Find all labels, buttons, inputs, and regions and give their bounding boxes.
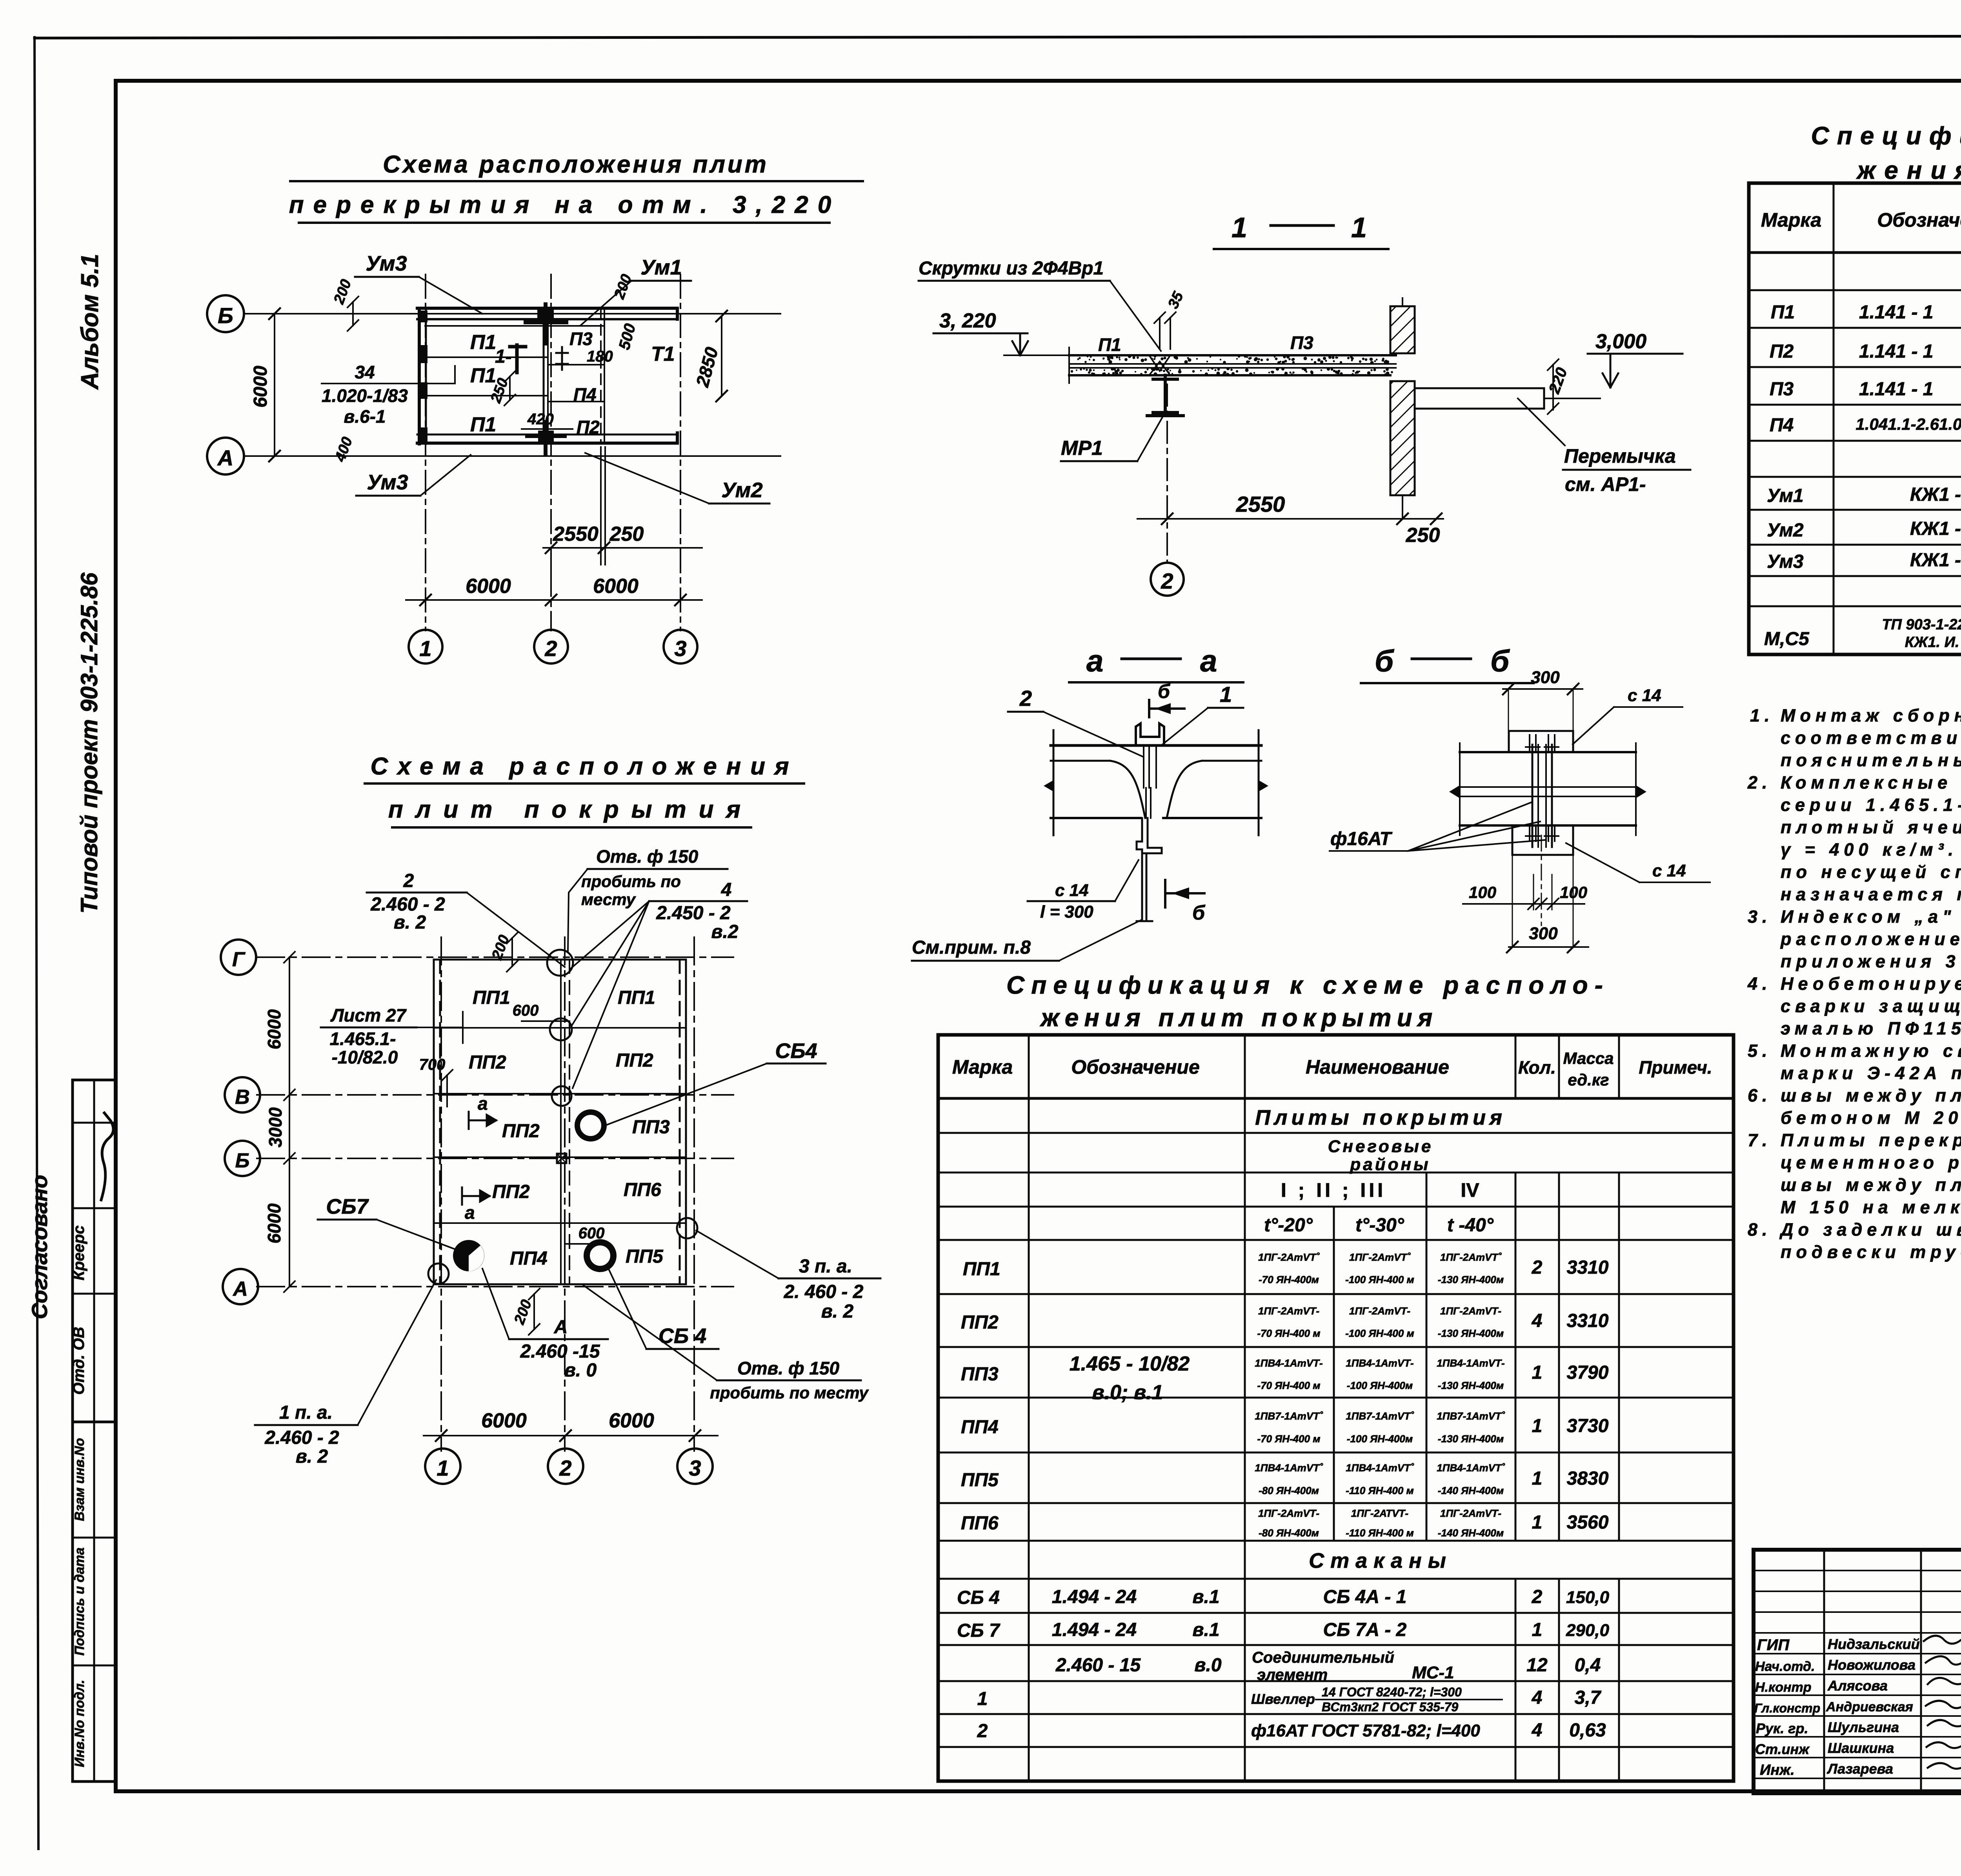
- level arrow 3,220: [1012, 333, 1028, 355]
- leaders ф16АТ: [1408, 802, 1545, 851]
- svg-text:элемент: элемент: [1257, 1666, 1328, 1683]
- svg-text:4.: 4.: [1747, 974, 1772, 994]
- svg-text:назначается при привязке.: назначается при привязке.: [1781, 884, 1961, 904]
- svg-text:ГИП: ГИП: [1757, 1636, 1790, 1654]
- svg-text:6000: 6000: [593, 575, 639, 598]
- svg-text:СБ 7А - 2: СБ 7А - 2: [1323, 1620, 1407, 1640]
- svg-text:ед.кг: ед.кг: [1568, 1071, 1609, 1089]
- svg-text:4: 4: [1532, 1720, 1543, 1741]
- svg-text:-140 ЯН-400м: -140 ЯН-400м: [1438, 1527, 1504, 1539]
- svg-text:а: а: [465, 1202, 475, 1223]
- right dashed wall strip: [679, 960, 681, 1284]
- column circle 1: [409, 630, 442, 664]
- svg-text:200: 200: [331, 277, 355, 307]
- svg-text:6000: 6000: [609, 1409, 654, 1432]
- svg-text:2: 2: [559, 1456, 571, 1480]
- rib curves: [1110, 761, 1145, 818]
- section mark б bottom: [1165, 880, 1204, 907]
- leader Ум1: [580, 281, 631, 325]
- svg-text:Спецификация к схеме располо-: Спецификация к схеме располо-: [1811, 122, 1961, 150]
- svg-text:6.: 6.: [1748, 1085, 1772, 1105]
- svg-text:3730: 3730: [1567, 1416, 1609, 1436]
- svg-text:6000: 6000: [481, 1409, 527, 1432]
- svg-text:6000: 6000: [466, 575, 511, 598]
- notes block: [1747, 705, 1961, 1262]
- svg-text:а: а: [478, 1093, 488, 1114]
- svg-text:КЖ1 - 18: КЖ1 - 18: [1910, 484, 1961, 505]
- svg-text:600: 600: [578, 1225, 605, 1242]
- slab hatch dots: [1071, 355, 1393, 376]
- svg-text:МР1: МР1: [1061, 437, 1103, 460]
- svg-text:700: 700: [419, 1056, 446, 1073]
- roof plan outline: [434, 960, 686, 1284]
- svg-text:Ум1: Ум1: [1767, 485, 1804, 506]
- svg-text:-130 ЯН-400м: -130 ЯН-400м: [1438, 1380, 1504, 1391]
- section 1-1 dim line 2550/250: [1137, 518, 1443, 520]
- svg-text:1.041.1-2.61.0.00.0-02: 1.041.1-2.61.0.00.0-02: [1855, 415, 1961, 433]
- plan building left wall: [418, 308, 421, 444]
- svg-text:месту: месту: [581, 890, 637, 909]
- I-beam under joint MP1: [1147, 375, 1183, 416]
- svg-text:сварки защищаются 2х слойны: сварки защищаются 2х слойным покрытием: [1781, 996, 1961, 1016]
- svg-text:П1: П1: [470, 413, 496, 436]
- svg-text:200: 200: [611, 272, 635, 302]
- svg-text:Альбом 5.1: Альбом 5.1: [76, 254, 104, 390]
- svg-text:Алясова: Алясова: [1827, 1678, 1888, 1694]
- svg-text:8.: 8.: [1748, 1220, 1772, 1240]
- svg-text:2550: 2550: [1236, 492, 1285, 516]
- svg-text:П3: П3: [569, 329, 593, 349]
- svg-text:пробить по: пробить по: [581, 872, 681, 891]
- svg-text:перекрытия на отм. 3,220: перекрытия на отм. 3,220: [289, 191, 841, 218]
- svg-text:-110 ЯН-400 м: -110 ЯН-400 м: [1346, 1485, 1414, 1496]
- hole ПП4 dark: [453, 1240, 484, 1271]
- svg-text:Ум3: Ум3: [367, 471, 408, 494]
- leader СБ4: [605, 1063, 767, 1125]
- svg-text:-80 ЯН-400м: -80 ЯН-400м: [1259, 1485, 1319, 1496]
- svg-text:1: 1: [1220, 682, 1232, 707]
- svg-text:3: 3: [674, 636, 686, 661]
- axis line А2: [257, 1286, 733, 1287]
- wall blobs left: [418, 310, 554, 442]
- level line at slab top: [1004, 354, 1069, 356]
- svg-text:1.494 - 24: 1.494 - 24: [1052, 1620, 1137, 1640]
- svg-text:жения плит покрытия: жения плит покрытия: [1040, 1003, 1438, 1032]
- svg-text:марки Э-42А по ГОСТ 9467-7: марки Э-42А по ГОСТ 9467-75.: [1781, 1063, 1961, 1083]
- svg-text:Марка: Марка: [1761, 209, 1821, 231]
- leader target circle top: [547, 950, 573, 976]
- svg-text:П2: П2: [577, 417, 600, 437]
- svg-text:пояснительных записок применя: пояснительных записок применяемых серий.: [1781, 750, 1961, 770]
- svg-text:1ПГ-2АтVТ˚: 1ПГ-2АтVТ˚: [1258, 1251, 1320, 1263]
- svg-text:1ПВ7-1АтVТ˚: 1ПВ7-1АтVТ˚: [1346, 1410, 1414, 1422]
- svg-text:t°-30°: t°-30°: [1355, 1215, 1404, 1236]
- svg-text:Соединительный: Соединительный: [1252, 1649, 1394, 1666]
- svg-text:3310: 3310: [1567, 1257, 1609, 1278]
- column circle 3 plan2: [677, 1449, 713, 1484]
- svg-text:Согласовано: Согласовано: [27, 1175, 52, 1319]
- leader см.прим: [1059, 920, 1142, 961]
- svg-text:ПП3: ПП3: [632, 1117, 670, 1138]
- svg-text:А: А: [554, 1317, 568, 1338]
- bolt rods through slab: [1532, 745, 1534, 847]
- svg-text:34: 34: [355, 362, 375, 382]
- svg-text:в. 2: в. 2: [821, 1301, 854, 1322]
- axis circle А2: [223, 1269, 258, 1304]
- plan building top wall: [417, 307, 677, 310]
- svg-text:1.020-1/83: 1.020-1/83: [322, 385, 408, 406]
- svg-text:1ПВ4-1АтVТ-: 1ПВ4-1АтVТ-: [1346, 1357, 1413, 1369]
- svg-text:1 п. а.: 1 п. а.: [279, 1402, 333, 1423]
- column axis 2: [550, 274, 552, 573]
- slab joint vertical at axis 2: [543, 308, 545, 443]
- svg-text:2.: 2.: [1747, 773, 1772, 793]
- svg-text:ТП 903-1-225.86: ТП 903-1-225.86: [1882, 616, 1961, 633]
- leader target circle mid: [550, 1018, 572, 1040]
- leader отв ф150 top: [568, 869, 588, 951]
- svg-text:КЖ1 - 18: КЖ1 - 18: [1910, 518, 1961, 539]
- right edge circle 3pa: [677, 1218, 697, 1238]
- svg-text:2.460 - 15: 2.460 - 15: [1055, 1655, 1141, 1676]
- svg-text:3.: 3.: [1748, 907, 1772, 927]
- slab band b-b: [1450, 743, 1646, 925]
- svg-text:1ПГ-2АтVТ-: 1ПГ-2АтVТ-: [1258, 1305, 1319, 1317]
- column axis to circle 2: [1166, 384, 1168, 561]
- svg-text:1ПВ4-1АтVТ-: 1ПВ4-1АтVТ-: [1437, 1357, 1504, 1369]
- svg-text:В: В: [235, 1086, 250, 1109]
- svg-text:1.141 - 1: 1.141 - 1: [1859, 379, 1933, 400]
- svg-text:2: 2: [1161, 569, 1173, 593]
- svg-text:1: 1: [1351, 212, 1367, 244]
- svg-text:-10/82.0: -10/82.0: [332, 1047, 398, 1067]
- svg-text:соответствии с указаниями С: соответствии с указаниями СНиПШ-16-73 и: [1781, 728, 1961, 748]
- column circle 3: [664, 630, 697, 664]
- svg-text:Лазарева: Лазарева: [1826, 1761, 1893, 1777]
- axis line Б: [245, 313, 780, 314]
- svg-text:ф16АТ ГОСТ 5781-82; l=400: ф16АТ ГОСТ 5781-82; l=400: [1251, 1721, 1480, 1740]
- leader МР1: [1137, 416, 1163, 461]
- leader 3 па: [696, 1231, 779, 1278]
- svg-text:1ПГ-2АтVТ-: 1ПГ-2АтVТ-: [1440, 1507, 1501, 1519]
- svg-text:1.494 - 24: 1.494 - 24: [1052, 1587, 1137, 1607]
- svg-text:расположение закладных детал: расположение закладных деталей согласно: [1780, 929, 1961, 949]
- svg-text:-80 ЯН-400м: -80 ЯН-400м: [1259, 1527, 1319, 1539]
- svg-text:ПП3: ПП3: [961, 1364, 999, 1385]
- sheet outer border left: [35, 37, 38, 1849]
- sheet outer border top: [35, 36, 1961, 38]
- leader СБ4 lower: [607, 1266, 646, 1349]
- svg-text:1: 1: [419, 636, 431, 661]
- svg-text:б: б: [1490, 644, 1510, 678]
- svg-text:5.: 5.: [1748, 1041, 1772, 1061]
- svg-text:-70 ЯН-400 м: -70 ЯН-400 м: [1257, 1433, 1320, 1445]
- svg-text:6000: 6000: [264, 1203, 284, 1243]
- svg-text:1: 1: [1532, 1416, 1543, 1436]
- svg-text:l = 300: l = 300: [1040, 902, 1093, 922]
- svg-text:ПП2: ПП2: [469, 1052, 506, 1073]
- svg-text:Кол.: Кол.: [1518, 1057, 1556, 1078]
- svg-text:в.6-1: в.6-1: [344, 406, 386, 427]
- svg-text:1: 1: [1532, 1468, 1543, 1489]
- svg-text:П3: П3: [1290, 333, 1313, 353]
- svg-text:ПП2: ПП2: [502, 1121, 540, 1142]
- hanger rod: [1137, 853, 1152, 921]
- anchor cross top axis2: [526, 304, 566, 344]
- svg-text:б: б: [1158, 680, 1171, 702]
- section mark б top: [1149, 700, 1184, 717]
- svg-text:в.1: в.1: [1192, 1620, 1219, 1640]
- axis circle А: [207, 438, 244, 474]
- svg-text:290,0: 290,0: [1566, 1621, 1610, 1640]
- svg-text:П4: П4: [1770, 415, 1794, 436]
- svg-text:420: 420: [527, 411, 554, 428]
- svg-text:Ум3: Ум3: [366, 252, 407, 275]
- svg-text:1ПВ4-1АтVТ˚: 1ПВ4-1АтVТ˚: [1255, 1462, 1323, 1474]
- svg-text:1.465.1-: 1.465.1-: [330, 1029, 396, 1049]
- svg-text:1: 1: [437, 1456, 449, 1480]
- slab joint wedge: [1149, 355, 1170, 375]
- svg-text:плит покрытия: плит покрытия: [388, 796, 753, 823]
- svg-text:серии 1.465.1-10/82. В кач: серии 1.465.1-10/82. В качестве утеплите…: [1781, 795, 1961, 815]
- svg-text:12: 12: [1526, 1655, 1548, 1676]
- leader А: [482, 1269, 509, 1339]
- edge ticks: [1053, 730, 1055, 835]
- svg-text:швы между плитами покрытия: швы между плитами покрытия заделать: [1781, 1085, 1961, 1105]
- svg-text:150,0: 150,0: [1566, 1588, 1610, 1607]
- bottom dim line plan2: [424, 1435, 718, 1436]
- svg-text:приложения 3 ГОСТ 22 701.0 -: приложения 3 ГОСТ 22 701.0 - 77.: [1781, 951, 1961, 971]
- svg-text:1ПГ-2АтVТ˚: 1ПГ-2АтVТ˚: [1440, 1251, 1502, 1263]
- svg-text:2: 2: [1532, 1587, 1543, 1607]
- svg-text:Нач.отд.: Нач.отд.: [1755, 1659, 1815, 1674]
- svg-text:подвески трубопроводов по: подвески трубопроводов по сеч. а - а.: [1781, 1242, 1961, 1262]
- square marker at axis2-Б: [557, 1154, 566, 1163]
- svg-text:1.465 - 10/82: 1.465 - 10/82: [1070, 1352, 1190, 1375]
- wall bottom hatch continues: [1402, 495, 1403, 519]
- leader СБ7: [377, 1220, 460, 1251]
- svg-text:а: а: [1200, 644, 1217, 678]
- svg-text:t°-20°: t°-20°: [1264, 1215, 1313, 1236]
- leaders 4: [571, 901, 649, 1088]
- axis circle Б: [207, 295, 244, 332]
- svg-text:4: 4: [721, 880, 732, 900]
- svg-text:1ПГ-2АтVТ˚: 1ПГ-2АтVТ˚: [1349, 1251, 1411, 1263]
- svg-text:см. АР1-: см. АР1-: [1565, 473, 1646, 495]
- svg-text:Т1: Т1: [651, 343, 675, 365]
- dim line bottom 6000x2: [406, 599, 702, 601]
- svg-text:Швеллер: Швеллер: [1251, 1691, 1315, 1707]
- svg-text:П2: П2: [1770, 341, 1794, 362]
- signatures scribbles: [1924, 1636, 1961, 1769]
- hanger hook below slab: [1137, 818, 1162, 853]
- leader Скрутки: [1110, 281, 1161, 351]
- column axis 3: [680, 274, 681, 631]
- svg-text:Ст.инж: Ст.инж: [1755, 1741, 1810, 1757]
- svg-text:Отд. ОВ: Отд. ОВ: [70, 1327, 87, 1394]
- svg-text:ПП5: ПП5: [961, 1470, 999, 1491]
- svg-text:-70 ЯН-400м: -70 ЯН-400м: [1259, 1274, 1319, 1285]
- svg-text:500: 500: [616, 322, 639, 352]
- svg-text:180: 180: [587, 348, 613, 365]
- svg-text:Лист 27: Лист 27: [330, 1005, 407, 1025]
- axis line В: [257, 1094, 733, 1096]
- svg-text:14 ГОСТ 8240-72; l=300: 14 ГОСТ 8240-72; l=300: [1322, 1685, 1462, 1699]
- svg-text:Инж.: Инж.: [1760, 1762, 1795, 1778]
- svg-text:0,63: 0,63: [1569, 1720, 1606, 1741]
- svg-text:250: 250: [609, 523, 644, 545]
- column circle 1 plan2: [425, 1449, 460, 1484]
- edge arrows: [1044, 780, 1053, 791]
- svg-text:Необетонируемые монтажные: Необетонируемые монтажные узлы после: [1781, 974, 1961, 994]
- bolts top b-b: [1526, 735, 1559, 752]
- svg-text:2: 2: [1019, 686, 1032, 711]
- svg-text:2550: 2550: [553, 523, 598, 545]
- svg-text:6000: 6000: [250, 365, 271, 407]
- small joint lines at axis2 below plan: [600, 447, 602, 565]
- svg-text:1ПГ-2АТVТ-: 1ПГ-2АТVТ-: [1351, 1507, 1408, 1519]
- axis circle Г: [221, 940, 256, 975]
- svg-text:ПП4: ПП4: [510, 1248, 548, 1269]
- svg-text:б: б: [1375, 644, 1394, 678]
- column circle 2 plan2: [548, 1449, 583, 1484]
- svg-text:Плиты покрытия: Плиты покрытия: [1255, 1106, 1506, 1129]
- slab joint lines P1: [426, 356, 548, 358]
- svg-text:1: 1: [1532, 1362, 1543, 1383]
- axis line Г: [257, 956, 733, 958]
- svg-text:-110 ЯН-400 м: -110 ЯН-400 м: [1346, 1527, 1414, 1539]
- svg-text:СБ 4А - 1: СБ 4А - 1: [1323, 1587, 1407, 1607]
- svg-text:400: 400: [332, 435, 356, 464]
- column axis 3 plan2: [693, 937, 695, 1451]
- svg-text:-130 ЯН-400м: -130 ЯН-400м: [1438, 1433, 1504, 1445]
- svg-text:-100 ЯН-400м: -100 ЯН-400м: [1347, 1380, 1413, 1391]
- axis line Б2: [257, 1158, 733, 1159]
- axis circle В: [225, 1077, 260, 1113]
- svg-text:1ПВ7-1АтVТ˚: 1ПВ7-1АтVТ˚: [1255, 1410, 1323, 1422]
- svg-text:в. 2: в. 2: [296, 1446, 328, 1467]
- svg-text:-140 ЯН-400м: -140 ЯН-400м: [1438, 1485, 1504, 1496]
- svg-text:Монтажную сварку производит: Монтажную сварку производить электродами: [1781, 1041, 1961, 1061]
- svg-text:3830: 3830: [1567, 1468, 1609, 1489]
- svg-text:Андриевская: Андриевская: [1826, 1700, 1913, 1714]
- svg-text:СБ 7: СБ 7: [957, 1620, 1001, 1641]
- svg-text:Шульгина: Шульгина: [1828, 1719, 1899, 1735]
- svg-text:ПП6: ПП6: [961, 1513, 999, 1534]
- svg-text:Комплексные плиты покрытия: Комплексные плиты покрытия приняты по: [1781, 773, 1961, 793]
- svg-text:3790: 3790: [1567, 1362, 1609, 1383]
- corner mark bottom right: [666, 433, 677, 443]
- slab band section 1-1: [1069, 347, 1396, 383]
- svg-text:с 14: с 14: [1628, 686, 1661, 705]
- svg-text:300: 300: [1531, 668, 1560, 687]
- svg-text:Схема расположения плит: Схема расположения плит: [383, 151, 769, 178]
- svg-text:П1: П1: [470, 331, 496, 354]
- svg-text:IV: IV: [1461, 1179, 1479, 1201]
- centre vertical straps: [1144, 745, 1156, 788]
- svg-text:300: 300: [1529, 924, 1558, 943]
- svg-text:Подпись и дата: Подпись и дата: [72, 1547, 87, 1656]
- svg-text:1.141 - 1: 1.141 - 1: [1859, 302, 1933, 323]
- anchor cross bottom axis2: [527, 422, 565, 455]
- svg-text:Отв. ф 150: Отв. ф 150: [737, 1358, 840, 1378]
- svg-text:Инв.No подл.: Инв.No подл.: [72, 1680, 87, 1767]
- leader target circle lower: [552, 1086, 571, 1106]
- svg-text:1ПГ-2АтVТ-: 1ПГ-2АтVТ-: [1440, 1305, 1501, 1317]
- svg-text:б: б: [1192, 902, 1206, 924]
- svg-text:СБ7: СБ7: [326, 1195, 369, 1218]
- level arrow 3,000: [1603, 354, 1618, 387]
- svg-text:3560: 3560: [1567, 1512, 1609, 1533]
- svg-text:ПП2: ПП2: [492, 1182, 530, 1202]
- column axis 1: [425, 274, 426, 631]
- svg-text:t -40°: t -40°: [1447, 1215, 1494, 1236]
- svg-text:плотный ячеистый бетон со: плотный ячеистый бетон со средней плотно…: [1781, 817, 1961, 837]
- svg-text:2: 2: [403, 871, 414, 891]
- svg-text:3,000: 3,000: [1595, 330, 1646, 353]
- leader 1 па: [358, 1280, 436, 1425]
- dim 2550/250: [543, 547, 702, 549]
- svg-text:1: 1: [1532, 1620, 1543, 1640]
- svg-text:Монтаж сборных элементов: Монтаж сборных элементов производить в: [1781, 705, 1961, 725]
- title block outline: [1754, 1550, 1961, 1793]
- svg-text:4: 4: [1532, 1687, 1543, 1708]
- svg-text:3, 220: 3, 220: [939, 309, 996, 332]
- svg-text:2.450 - 2: 2.450 - 2: [656, 903, 731, 923]
- svg-text:-100 ЯН-400 м: -100 ЯН-400 м: [1345, 1327, 1414, 1339]
- centerline b-b: [1541, 835, 1542, 925]
- svg-text:600: 600: [513, 1002, 539, 1019]
- svg-text:П4: П4: [573, 384, 597, 405]
- svg-text:-130 ЯН-400м: -130 ЯН-400м: [1438, 1327, 1504, 1339]
- plate top b-b: [1509, 731, 1573, 752]
- column axis 1 plan2: [440, 937, 442, 1451]
- svg-text:Г: Г: [232, 948, 246, 971]
- svg-text:35: 35: [1165, 289, 1187, 311]
- svg-text:Рук. гр.: Рук. гр.: [1756, 1720, 1808, 1736]
- wall right hatched: [1390, 306, 1415, 353]
- svg-text:Плиты перекрытия укладываютс: Плиты перекрытия укладываются на слой: [1781, 1130, 1961, 1150]
- svg-text:До заделки швов заложить э: До заделки швов заложить элементы для: [1779, 1220, 1961, 1240]
- svg-text:-70 ЯН-400 м: -70 ЯН-400 м: [1257, 1380, 1320, 1391]
- svg-text:Ум1: Ум1: [640, 256, 682, 279]
- leader Ум3 bottom: [420, 455, 471, 496]
- corner circle 1pa: [428, 1263, 449, 1284]
- svg-text:См.прим. п.8: См.прим. п.8: [912, 937, 1031, 958]
- svg-text:Ум2: Ум2: [1767, 520, 1804, 541]
- leader c14: [1115, 860, 1139, 901]
- svg-text:Креерс: Креерс: [70, 1225, 87, 1280]
- svg-text:-100 ЯН-400м: -100 ЯН-400м: [1347, 1433, 1413, 1445]
- svg-text:П1: П1: [470, 364, 496, 387]
- svg-text:ПП2: ПП2: [616, 1050, 653, 1071]
- names grid verticals: [1823, 1550, 1825, 1793]
- svg-text:220: 220: [1545, 365, 1571, 396]
- svg-text:ВСт3кп2 ГОСТ 535-79: ВСт3кп2 ГОСТ 535-79: [1322, 1700, 1458, 1714]
- spec table 1 grid: [1749, 183, 1961, 654]
- svg-text:СБ 4: СБ 4: [957, 1587, 1000, 1608]
- svg-text:Стаканы: Стаканы: [1309, 1549, 1452, 1572]
- svg-text:1ПВ4-1АтVТ-: 1ПВ4-1АтVТ-: [1255, 1357, 1322, 1369]
- svg-text:1: 1: [1532, 1512, 1543, 1533]
- right slab edge dashed: [600, 308, 602, 443]
- svg-text:3: 3: [689, 1456, 701, 1480]
- svg-text:ПП1: ПП1: [963, 1259, 1001, 1280]
- slab P4/P2 dividers: [548, 364, 603, 365]
- svg-text:Обозначение: Обозначение: [1877, 209, 1961, 231]
- svg-text:2.460 -15: 2.460 -15: [520, 1341, 600, 1362]
- svg-text:в.0; в.1: в.0; в.1: [1092, 1381, 1163, 1404]
- axis circle Б2: [225, 1141, 260, 1176]
